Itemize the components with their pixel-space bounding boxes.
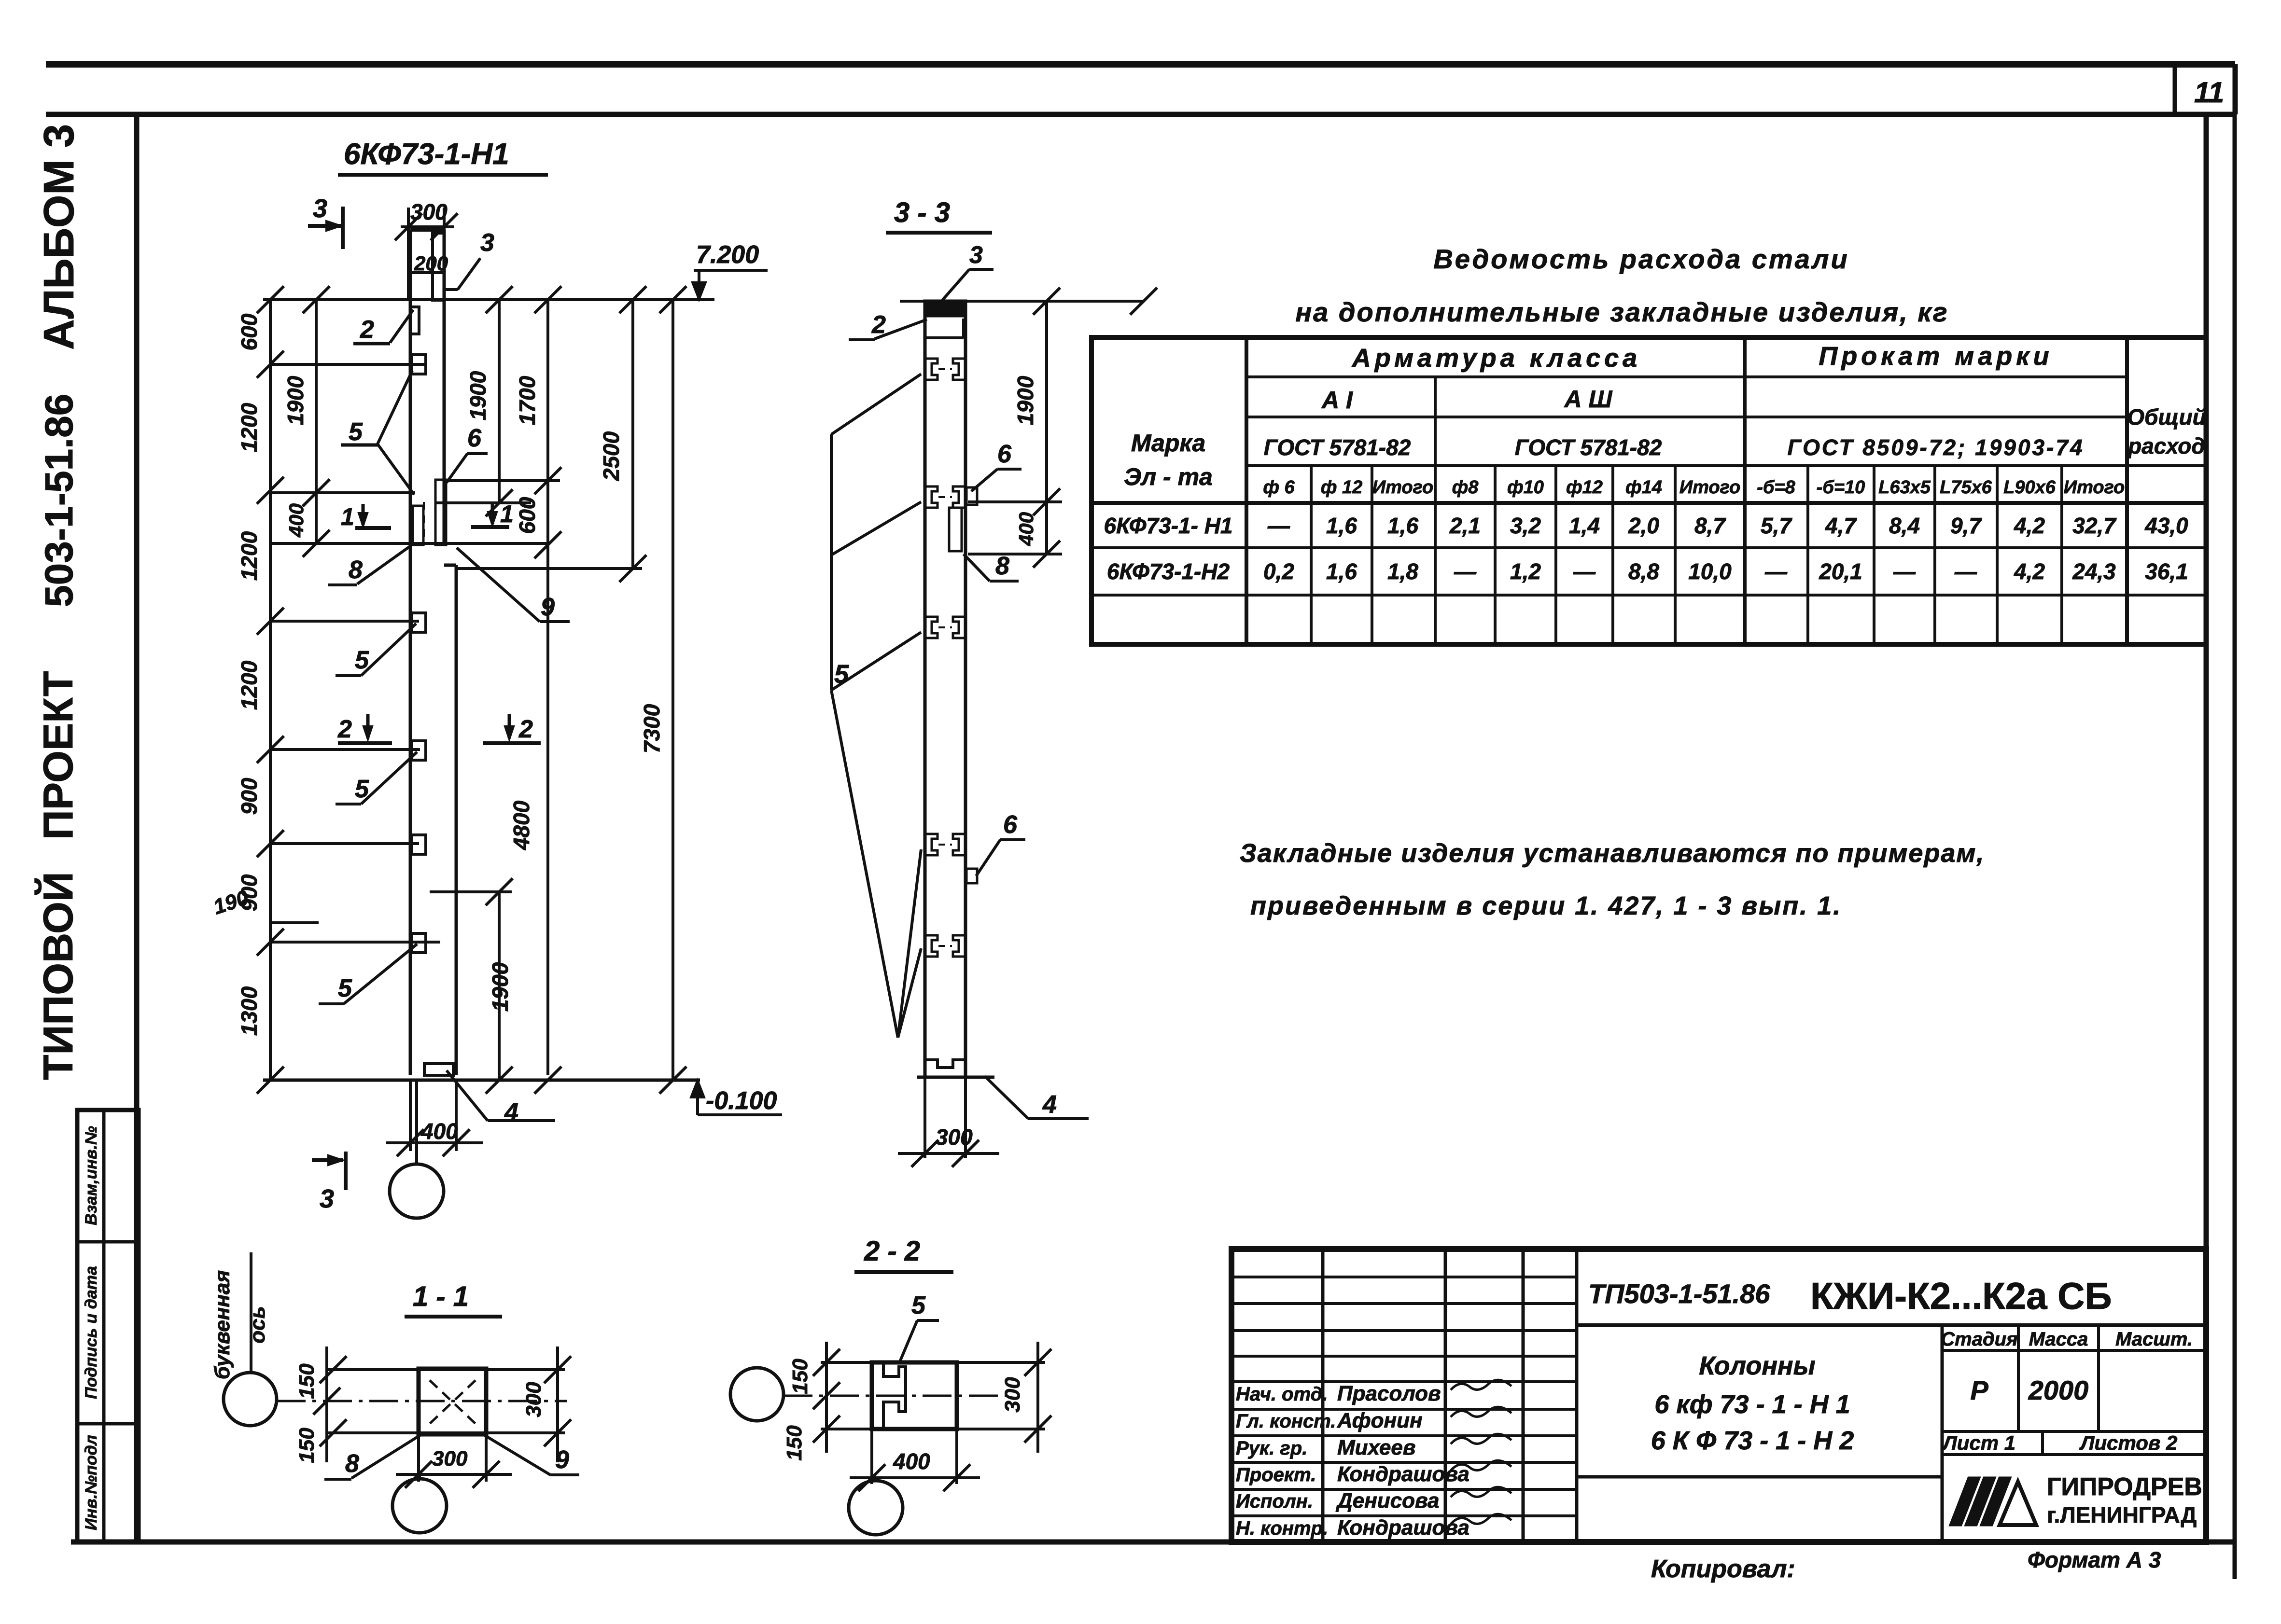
svg-text:Итого: Итого <box>1679 477 1740 498</box>
svg-text:Общий: Общий <box>2127 404 2206 430</box>
3-3 plate item 6 right <box>966 487 977 505</box>
svg-text:Листов 2: Листов 2 <box>2079 1431 2178 1454</box>
table outer border <box>1092 337 2206 644</box>
svg-text:А I: А I <box>1321 387 1353 414</box>
3-3 right dim chain 1900/400 <box>1045 301 1048 554</box>
svg-text:900: 900 <box>237 777 262 815</box>
svg-text:3 - 3: 3 - 3 <box>894 197 950 228</box>
axis circle 2-2 bottom <box>874 1478 877 1481</box>
big cell bottom line <box>1577 1323 2206 1327</box>
2-2 column rect <box>872 1362 957 1429</box>
svg-text:-б=10: -б=10 <box>1817 477 1865 498</box>
svg-text:L75х6: L75х6 <box>1940 477 1992 498</box>
svg-text:ф14: ф14 <box>1625 477 1662 498</box>
svg-text:Михеев: Михеев <box>1337 1436 1415 1459</box>
svg-text:1300: 1300 <box>237 986 262 1036</box>
base plate item 4 <box>424 1064 453 1075</box>
svg-text:ф 12: ф 12 <box>1321 477 1362 498</box>
svg-text:1900: 1900 <box>283 375 308 425</box>
svg-text:11: 11 <box>2194 76 2224 109</box>
svg-text:—: — <box>1764 559 1788 584</box>
svg-text:буквенная: буквенная <box>210 1270 234 1379</box>
svg-text:43,0: 43,0 <box>2144 513 2188 538</box>
svg-text:8: 8 <box>349 556 363 584</box>
svg-text:L63х5: L63х5 <box>1878 477 1931 498</box>
1-1 square cross dashes <box>430 1380 476 1424</box>
svg-text:Марка: Марка <box>1131 430 1205 457</box>
3-3 bottom shoe <box>925 1060 966 1077</box>
svg-text:ТИПОВОЙ: ТИПОВОЙ <box>35 872 82 1080</box>
axis circle 1-1 bottom <box>418 1474 421 1479</box>
title block signature rows <box>1231 1276 1577 1278</box>
2-2 bottom dim 400 <box>870 1429 873 1484</box>
svg-text:—: — <box>1573 559 1596 584</box>
svg-text:3: 3 <box>480 229 494 257</box>
svg-text:Масса: Масса <box>2029 1329 2088 1350</box>
svg-text:Арматура класса: Арматура класса <box>1351 344 1641 373</box>
svg-text:503-1-51.86: 503-1-51.86 <box>37 394 81 607</box>
svg-text:2: 2 <box>360 316 374 344</box>
svg-text:3: 3 <box>969 241 983 268</box>
second chain x655 1900/400 <box>315 300 318 543</box>
svg-text:8,4: 8,4 <box>1889 513 1920 538</box>
svg-text:1 - 1: 1 - 1 <box>413 1281 469 1312</box>
1-1 column square <box>419 1369 486 1434</box>
svg-text:6 кф 73 - 1 - Н 1: 6 кф 73 - 1 - Н 1 <box>1654 1390 1850 1419</box>
svg-text:ф 6: ф 6 <box>1263 477 1295 498</box>
plate item 2 top left <box>410 307 419 334</box>
svg-text:ГИПРОДРЕВ: ГИПРОДРЕВ <box>2047 1473 2202 1501</box>
svg-text:4800: 4800 <box>509 800 534 850</box>
svg-text:1200: 1200 <box>237 660 262 710</box>
3-3 column outline <box>924 301 927 1077</box>
svg-text:-0.100: -0.100 <box>706 1087 777 1115</box>
section mark 3 bottom <box>312 1158 343 1162</box>
signature squiggles <box>1451 1380 1511 1390</box>
svg-text:1: 1 <box>500 500 514 527</box>
svg-text:Инв.№подл: Инв.№подл <box>82 1435 100 1530</box>
svg-text:ГОСТ 5781-82: ГОСТ 5781-82 <box>1264 435 1411 460</box>
svg-text:3: 3 <box>320 1184 334 1213</box>
console step right side <box>444 564 456 567</box>
axis circle below elevation <box>415 1080 418 1164</box>
embedded plate marks item 5 on left edge <box>411 355 426 374</box>
svg-text:1,6: 1,6 <box>1387 513 1418 538</box>
chain x1311 2500 <box>631 300 634 569</box>
svg-text:300: 300 <box>432 1447 468 1471</box>
svg-text:Эл - та: Эл - та <box>1124 463 1213 490</box>
3-3 dim 300 bottom <box>924 1077 926 1158</box>
svg-text:ГОСТ 5781-82: ГОСТ 5781-82 <box>1515 435 1662 460</box>
svg-text:1,6: 1,6 <box>1326 513 1357 538</box>
svg-text:—: — <box>1954 559 1977 584</box>
svg-text:600: 600 <box>515 497 540 534</box>
svg-text:ф10: ф10 <box>1507 477 1544 498</box>
svg-text:Взам,инв.№: Взам,инв.№ <box>82 1126 100 1225</box>
svg-text:3,2: 3,2 <box>1510 513 1541 538</box>
svg-text:7.200: 7.200 <box>696 241 759 269</box>
svg-text:1900: 1900 <box>1013 375 1038 425</box>
svg-text:Афонин: Афонин <box>1337 1409 1423 1432</box>
3-3 plate item 2 <box>925 336 964 339</box>
svg-text:Ведомость расхода стали: Ведомость расхода стали <box>1433 244 1849 274</box>
svg-text:Денисова: Денисова <box>1335 1489 1440 1513</box>
svg-text:1900: 1900 <box>465 371 490 420</box>
svg-text:400: 400 <box>285 503 308 538</box>
svg-text:ось: ось <box>246 1306 269 1343</box>
svg-text:—: — <box>1267 513 1290 538</box>
svg-text:1,2: 1,2 <box>1510 559 1541 584</box>
svg-text:Итого: Итого <box>2064 477 2125 498</box>
connector lines left chain <box>270 363 425 366</box>
svg-text:Н. контр.: Н. контр. <box>1236 1518 1328 1539</box>
svg-text:4,2: 4,2 <box>2014 559 2045 584</box>
title block signature table verticals <box>1321 1249 1325 1542</box>
svg-text:300: 300 <box>522 1382 546 1417</box>
svg-text:150: 150 <box>295 1363 319 1399</box>
svg-text:1,6: 1,6 <box>1326 559 1357 584</box>
2-2 left dim verticals <box>825 1342 828 1453</box>
svg-text:ПРОЕКТ: ПРОЕКТ <box>35 671 82 840</box>
svg-text:0,2: 0,2 <box>1263 559 1294 584</box>
svg-text:5: 5 <box>911 1291 926 1319</box>
axis circle 2-2 left <box>730 1368 784 1421</box>
svg-text:400: 400 <box>893 1449 930 1474</box>
svg-text:6КФ73-1-Н1: 6КФ73-1-Н1 <box>344 138 509 171</box>
svg-text:Р: Р <box>1970 1375 1988 1405</box>
3-3 top cap plate <box>925 301 966 316</box>
right dim chain x1135 1700+600 <box>546 300 549 1075</box>
right dim chain x1034 1900 upper <box>498 300 501 503</box>
svg-text:6: 6 <box>1003 811 1018 839</box>
svg-text:на дополнительные закладные: на дополнительные закладные изделия, кг <box>1295 297 1948 327</box>
joint plates at console <box>413 506 423 545</box>
svg-text:Стадия: Стадия <box>1941 1329 2017 1350</box>
svg-text:Исполн.: Исполн. <box>1236 1491 1313 1512</box>
svg-text:—: — <box>1893 559 1916 584</box>
svg-text:АЛЬБОМ 3: АЛЬБОМ 3 <box>35 124 83 350</box>
svg-text:6КФ73-1-Н2: 6КФ73-1-Н2 <box>1107 559 1230 584</box>
svg-text:ГОСТ 8509-72; 19903-74: ГОСТ 8509-72; 19903-74 <box>1787 435 2084 460</box>
2-2 channel profile inside <box>883 1362 906 1429</box>
svg-text:1,8: 1,8 <box>1387 559 1418 584</box>
svg-text:Копировал:: Копировал: <box>1651 1555 1795 1583</box>
svg-text:8: 8 <box>995 552 1009 580</box>
svg-text:300: 300 <box>1001 1377 1024 1413</box>
top plate item 3 <box>433 233 444 300</box>
svg-text:2500: 2500 <box>599 431 624 481</box>
svg-text:150: 150 <box>295 1428 319 1463</box>
svg-text:150: 150 <box>788 1359 812 1394</box>
svg-text:400: 400 <box>420 1119 458 1144</box>
svg-text:Нач. отд.: Нач. отд. <box>1236 1384 1328 1405</box>
sheet top border line <box>46 61 2235 68</box>
svg-text:г.ЛЕНИНГРАД: г.ЛЕНИНГРАД <box>2047 1502 2197 1527</box>
svg-text:Колонны: Колонны <box>1699 1351 1815 1380</box>
1-1 right dim vertical 300 <box>556 1346 559 1462</box>
svg-text:6 К Ф 73 - 1 - Н 2: 6 К Ф 73 - 1 - Н 2 <box>1651 1426 1854 1455</box>
svg-text:Кондрашова: Кондрашова <box>1337 1516 1469 1540</box>
svg-text:Закладные изделия устанавл: Закладные изделия устанавливаются по при… <box>1240 839 1985 868</box>
3-3 embedded plate pairs <box>925 359 938 380</box>
svg-text:2000: 2000 <box>2028 1375 2089 1405</box>
svg-text:Рук. гр.: Рук. гр. <box>1236 1438 1307 1459</box>
2-2 center line <box>784 1395 1007 1397</box>
giprodrev logo <box>1950 1478 1979 1525</box>
svg-text:2,1: 2,1 <box>1449 513 1481 538</box>
svg-text:—: — <box>1454 559 1477 584</box>
svg-text:Формат А 3: Формат А 3 <box>2028 1547 2161 1572</box>
svg-text:2: 2 <box>337 715 352 743</box>
base line -0.100 level <box>263 1079 700 1082</box>
svg-text:32,7: 32,7 <box>2072 513 2117 538</box>
1-1 center lines <box>277 1400 567 1402</box>
svg-text:ТП503-1-51.86: ТП503-1-51.86 <box>1588 1278 1770 1309</box>
svg-text:150: 150 <box>783 1425 806 1461</box>
stadiya massa masshtab columns <box>1941 1325 1944 1542</box>
axis circle 1-1 left <box>224 1373 277 1426</box>
svg-text:-б=8: -б=8 <box>1757 477 1795 498</box>
3-3 joint plate right lower <box>949 508 962 551</box>
table horizontal lines <box>1246 375 2127 378</box>
svg-text:1700: 1700 <box>515 375 540 425</box>
svg-text:4,2: 4,2 <box>2014 513 2045 538</box>
svg-text:А Ш: А Ш <box>1564 386 1613 413</box>
svg-text:1,4: 1,4 <box>1569 513 1600 538</box>
level mark -0.100 <box>696 1080 699 1115</box>
svg-text:9,7: 9,7 <box>1950 513 1982 538</box>
svg-text:2,0: 2,0 <box>1628 513 1659 538</box>
chain x1394 7300 <box>672 300 674 1080</box>
2-2 bottom dim line <box>821 1428 1045 1430</box>
1-1 bottom dim line <box>327 1431 565 1434</box>
svg-text:7300: 7300 <box>639 704 664 753</box>
title block outer border <box>1231 1249 2206 1542</box>
svg-text:ф12: ф12 <box>1566 477 1603 498</box>
svg-text:Гл. конст.: Гл. конст. <box>1236 1411 1336 1432</box>
2-2 top dim line <box>821 1361 1045 1364</box>
dim chain 1900 lower right <box>498 892 501 1080</box>
3-3 plate item 6 lower right <box>966 869 977 883</box>
svg-text:3: 3 <box>313 194 327 223</box>
svg-text:5,7: 5,7 <box>1761 513 1792 538</box>
long top dimension line 7.200 level <box>263 298 714 301</box>
svg-text:4,7: 4,7 <box>1825 513 1857 538</box>
svg-text:Итого: Итого <box>1372 477 1433 498</box>
1-1 bottom dim 300 <box>417 1434 420 1482</box>
svg-text:9: 9 <box>555 1446 569 1474</box>
1-1 top dim line <box>327 1368 565 1371</box>
svg-text:расход: расход <box>2127 433 2205 458</box>
svg-text:Прокат марки: Прокат марки <box>1819 342 2053 371</box>
svg-text:4: 4 <box>504 1098 518 1126</box>
svg-text:КЖИ-К2...К2а СБ: КЖИ-К2...К2а СБ <box>1810 1275 2112 1317</box>
svg-text:Кондрашова: Кондрашова <box>1337 1462 1469 1486</box>
svg-text:ф8: ф8 <box>1452 477 1479 498</box>
svg-text:36,1: 36,1 <box>2145 559 2188 584</box>
2-2 right dim 300 <box>1036 1342 1039 1453</box>
svg-text:1: 1 <box>341 503 354 530</box>
table vertical lines <box>1245 337 1248 644</box>
svg-text:приведенным в серии 1: приведенным в серии 1. 427, 1 - 3 вып. 1… <box>1250 891 1842 920</box>
left dim chain x560 <box>269 300 272 1080</box>
svg-text:1900: 1900 <box>488 962 513 1012</box>
1-1 left dim verticals <box>325 1346 328 1462</box>
sidebar bottom boxes <box>77 1110 139 1542</box>
svg-text:1200: 1200 <box>237 403 262 452</box>
svg-text:6: 6 <box>997 440 1012 468</box>
svg-text:1200: 1200 <box>237 531 262 581</box>
svg-text:2 - 2: 2 - 2 <box>864 1235 920 1267</box>
svg-text:8,8: 8,8 <box>1628 559 1659 584</box>
svg-text:20,1: 20,1 <box>1819 559 1862 584</box>
column shaft outline <box>409 230 412 1075</box>
main frame <box>137 114 2206 1542</box>
svg-text:600: 600 <box>237 313 262 350</box>
svg-text:400: 400 <box>1015 512 1037 546</box>
svg-text:Подпись и дата: Подпись и дата <box>82 1266 100 1399</box>
dim 400 bottom <box>409 1080 412 1151</box>
svg-text:L90х6: L90х6 <box>2003 477 2056 498</box>
svg-text:Проект.: Проект. <box>1236 1464 1316 1485</box>
svg-text:Лист 1: Лист 1 <box>1942 1431 2015 1454</box>
svg-text:5: 5 <box>349 418 363 446</box>
svg-text:Масшт.: Масшт. <box>2115 1329 2193 1350</box>
svg-text:4: 4 <box>1042 1091 1057 1119</box>
svg-text:6: 6 <box>467 424 482 452</box>
kolonny cell <box>1577 1475 1942 1479</box>
svg-text:Прасолов: Прасолов <box>1337 1382 1441 1405</box>
page number box 11 <box>46 112 2235 117</box>
svg-text:10,0: 10,0 <box>1688 559 1732 584</box>
list row <box>1942 1430 2206 1433</box>
svg-text:6КФ73-1- Н1: 6КФ73-1- Н1 <box>1104 513 1233 538</box>
bottom extension line <box>71 1540 140 1545</box>
svg-text:8,7: 8,7 <box>1694 513 1726 538</box>
outer right border line <box>2233 114 2237 1579</box>
svg-text:300: 300 <box>936 1124 973 1150</box>
svg-text:2: 2 <box>518 715 533 743</box>
svg-text:24,3: 24,3 <box>2072 559 2116 584</box>
